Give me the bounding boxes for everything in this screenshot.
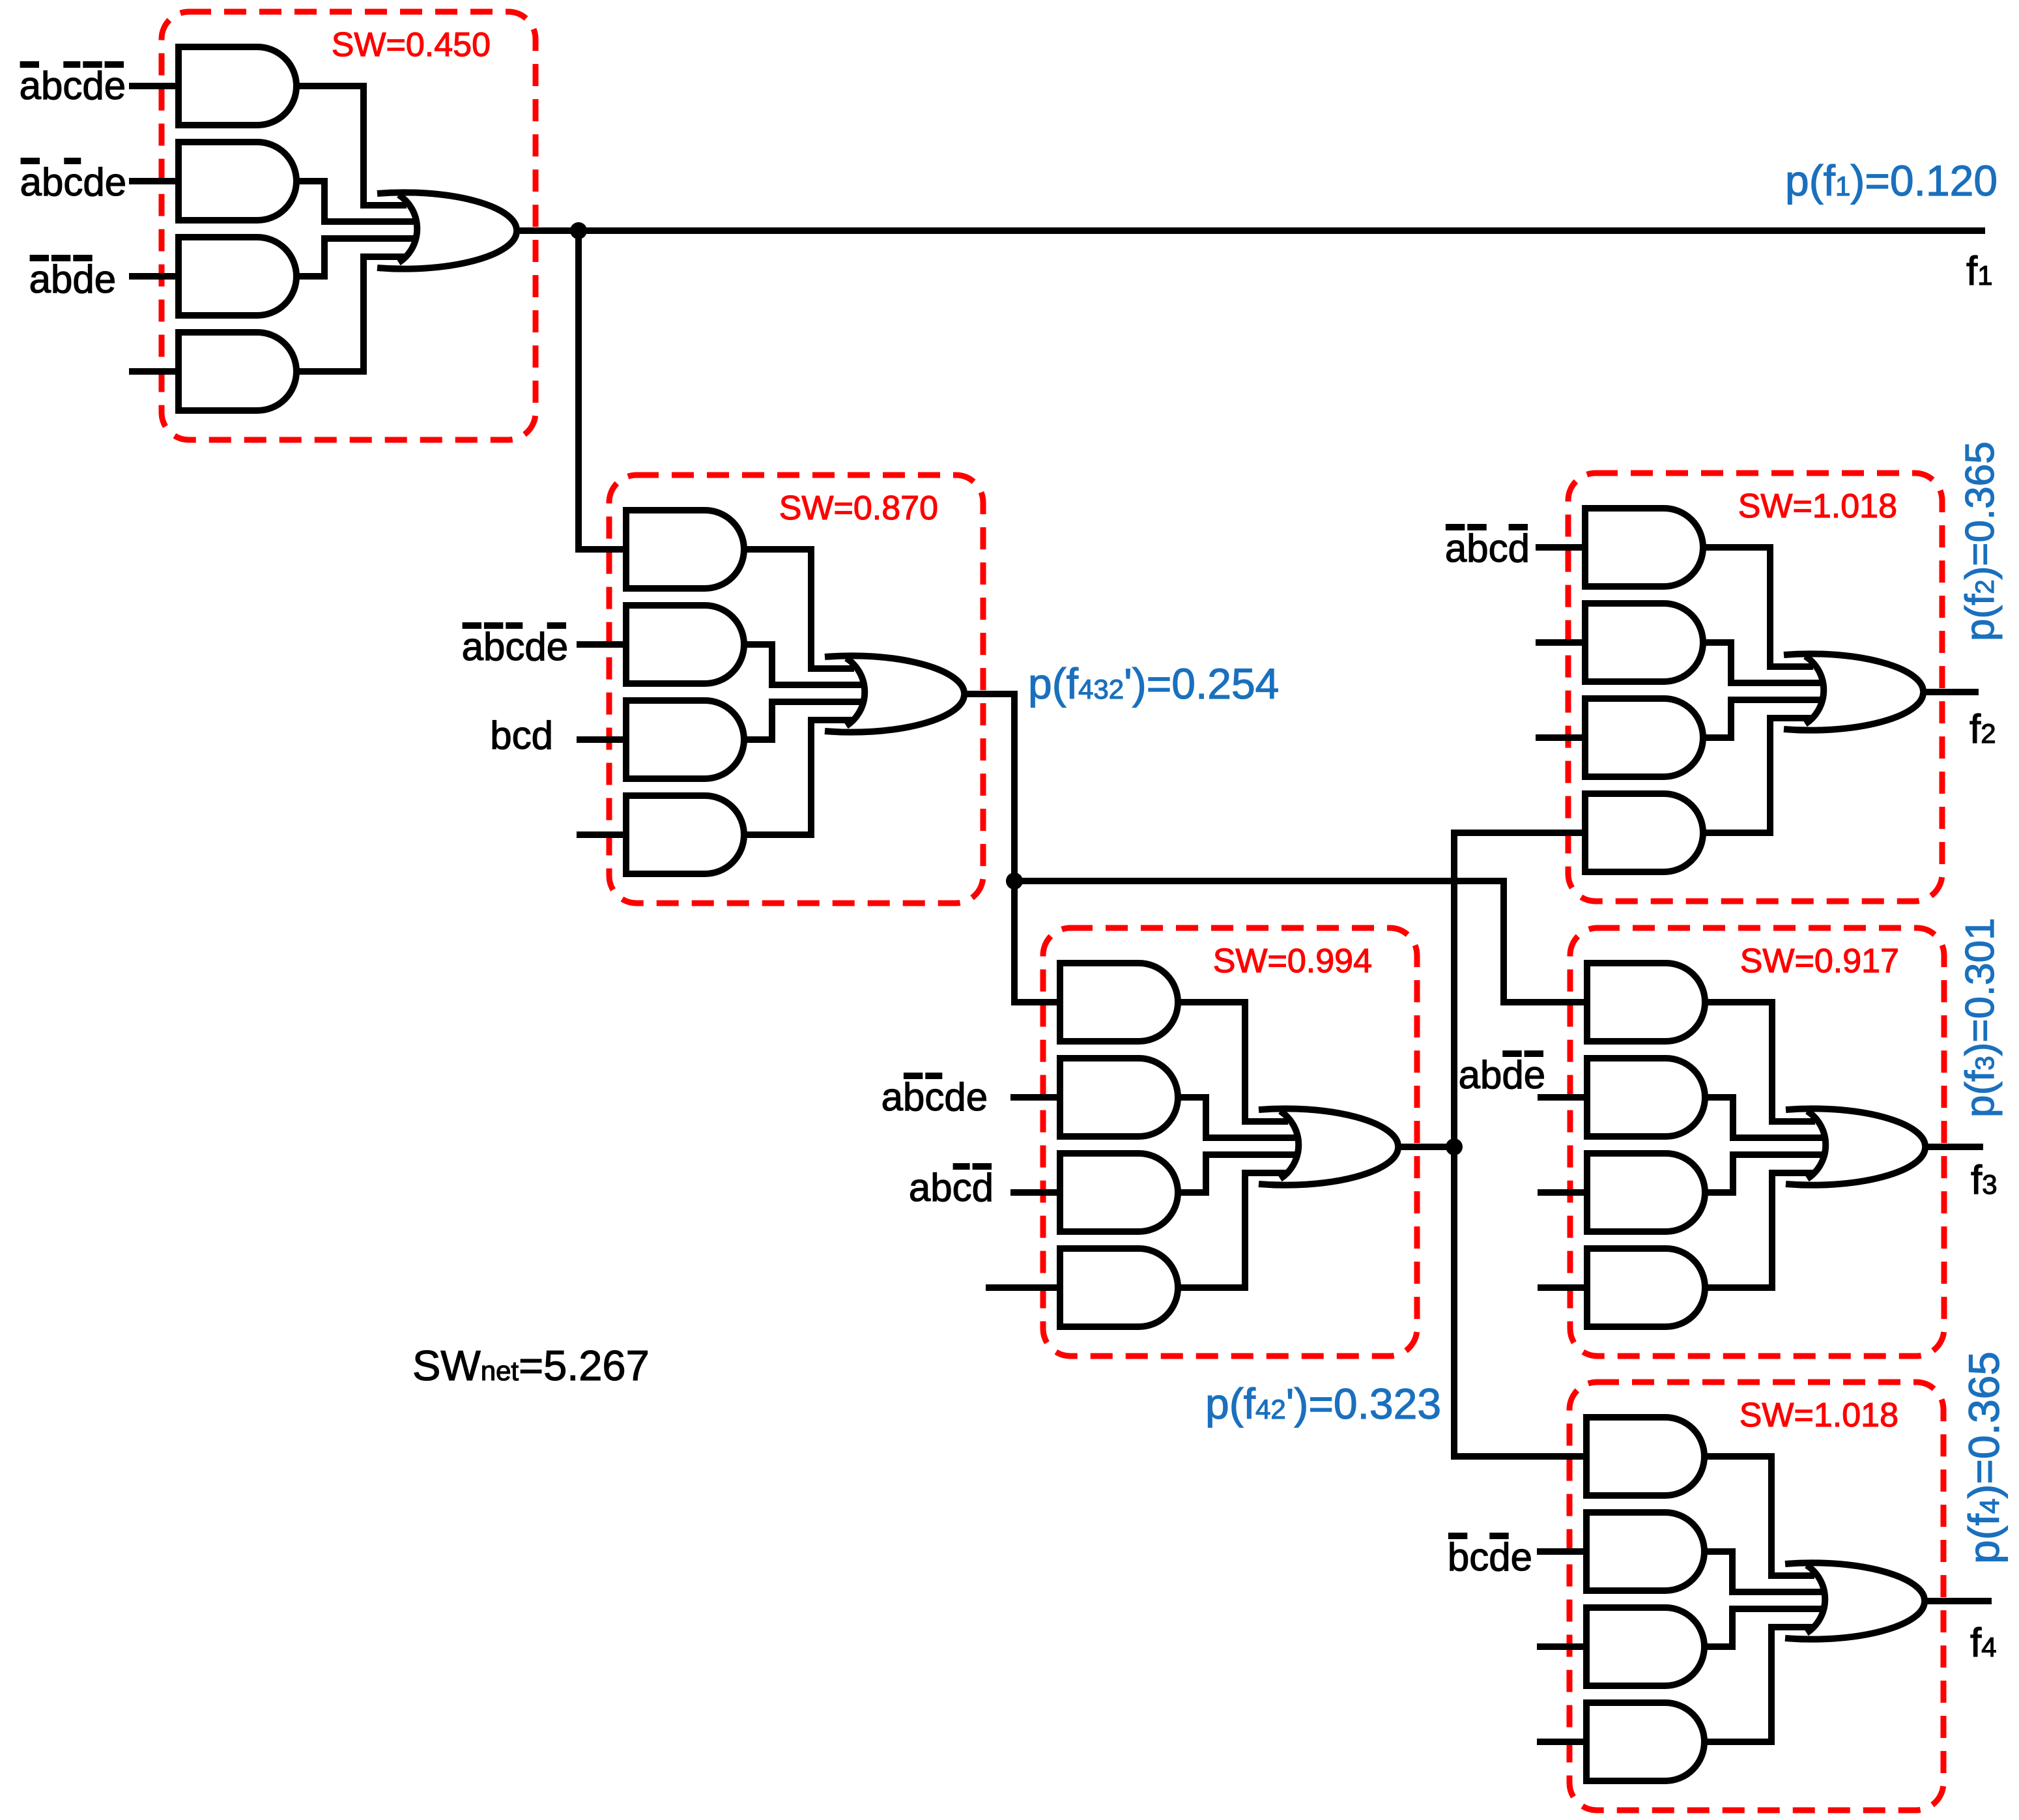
svg-text:abcde: abcde xyxy=(20,160,126,204)
svg-text:p(f1)=0.120: p(f1)=0.120 xyxy=(1785,156,1998,205)
svg-text:p(f4)=0.365: p(f4)=0.365 xyxy=(1960,1351,2008,1564)
svg-text:bcd: bcd xyxy=(490,714,553,757)
svg-text:p(f42')=0.323: p(f42')=0.323 xyxy=(1205,1379,1441,1428)
svg-text:p(f2)=0.365: p(f2)=0.365 xyxy=(1958,441,2003,641)
svg-text:SW=0.870: SW=0.870 xyxy=(779,489,938,527)
svg-text:SW=0.450: SW=0.450 xyxy=(332,26,491,64)
svg-text:abcd: abcd xyxy=(1445,527,1530,570)
svg-text:SWnet=5.267: SWnet=5.267 xyxy=(412,1342,650,1389)
svg-text:abcde: abcde xyxy=(881,1075,988,1119)
svg-text:abcde: abcde xyxy=(462,625,568,669)
svg-text:p(f3)=0.301: p(f3)=0.301 xyxy=(1958,917,2003,1118)
svg-text:SW=0.917: SW=0.917 xyxy=(1740,942,1899,980)
svg-text:p(f432')=0.254: p(f432')=0.254 xyxy=(1028,659,1279,708)
svg-text:SW=0.994: SW=0.994 xyxy=(1213,942,1372,980)
svg-text:SW=1.018: SW=1.018 xyxy=(1740,1396,1898,1434)
svg-text:abcd: abcd xyxy=(909,1166,994,1209)
svg-text:abde: abde xyxy=(29,257,116,301)
svg-text:SW=1.018: SW=1.018 xyxy=(1738,487,1897,525)
svg-text:abcde: abcde xyxy=(20,64,126,108)
svg-text:abde: abde xyxy=(1459,1053,1545,1097)
svg-text:bcde: bcde xyxy=(1448,1535,1532,1579)
